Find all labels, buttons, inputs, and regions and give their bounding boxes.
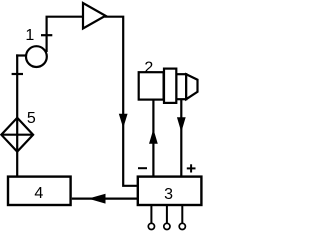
pump P1 circle bbox=[26, 46, 47, 67]
terminal circle left bbox=[148, 223, 154, 229]
minus label bbox=[138, 167, 147, 169]
svg-text:4: 4 bbox=[34, 185, 43, 202]
amplifier triangle U1 bbox=[83, 3, 106, 29]
plus label bbox=[187, 167, 196, 169]
tick mark on left wire bbox=[12, 73, 23, 75]
svg-text:5: 5 bbox=[27, 110, 36, 127]
svg-text:1: 1 bbox=[25, 27, 34, 44]
wire pump inlet horizontal bbox=[16, 54, 26, 56]
component 2 nozzle rect bbox=[176, 74, 186, 99]
terminal stub right bbox=[181, 205, 183, 223]
wire from component 2 right down to box 3 bbox=[180, 99, 182, 176]
wire box3 to box4 bbox=[72, 198, 138, 200]
arrow up on left component wire bbox=[150, 131, 157, 143]
wire from component 2 left down to box 3 bbox=[152, 100, 154, 177]
tick mark on pump outlet bbox=[41, 34, 52, 36]
wire pump outlet vertical bbox=[45, 17, 47, 52]
wire amplifier output to right corner and down to box 3 bbox=[105, 17, 138, 186]
arrow down on right component wire bbox=[178, 118, 185, 131]
component 2 bullet cone bbox=[186, 74, 197, 99]
diamond cross line bbox=[1, 134, 33, 136]
arrow left on box3-box4 wire bbox=[90, 194, 105, 203]
wire left vertical bbox=[16, 54, 18, 177]
arrow down on right vertical wire bbox=[120, 114, 127, 126]
component 2 wide rect bbox=[139, 72, 164, 99]
box 3 bbox=[138, 177, 202, 205]
component 2 narrow tall rect bbox=[164, 69, 176, 103]
wire top horizontal to amplifier bbox=[46, 16, 85, 18]
terminal stub middle bbox=[166, 205, 168, 223]
terminal stub left bbox=[150, 205, 152, 223]
svg-text:3: 3 bbox=[164, 186, 173, 203]
box 4 bbox=[8, 177, 71, 205]
terminal circle middle bbox=[164, 223, 170, 229]
terminal circle right bbox=[179, 223, 185, 229]
filter diamond 5 bbox=[1, 118, 33, 152]
